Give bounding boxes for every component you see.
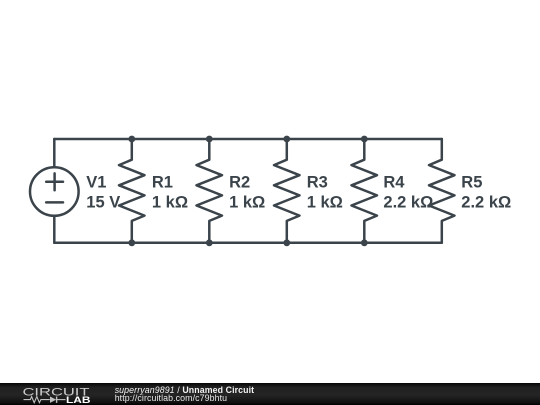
node junction bottom R1 (128, 239, 135, 246)
svg-text:1 kΩ: 1 kΩ (229, 194, 265, 212)
logo mini diode (50, 397, 56, 403)
svg-text:R5: R5 (461, 173, 482, 191)
wire bottom rail (54, 242, 442, 245)
svg-text:15 V: 15 V (86, 194, 120, 212)
svg-text:R2: R2 (229, 173, 250, 191)
node junction top R3 (283, 136, 290, 143)
svg-text:R3: R3 (307, 173, 328, 191)
node junction top R4 (361, 136, 368, 143)
resistor R5 (429, 139, 455, 243)
footer url line (115, 394, 227, 403)
voltage source V1 (30, 167, 79, 216)
node junction bottom R2 (206, 239, 213, 246)
svg-text:1 kΩ: 1 kΩ (152, 194, 188, 212)
resistor R2 (197, 139, 223, 243)
svg-text:V1: V1 (86, 173, 106, 191)
resistor R1 (119, 139, 145, 243)
resistor R3 (274, 139, 300, 243)
node junction bottom R4 (361, 239, 368, 246)
node junction top R1 (128, 136, 135, 143)
wire top rail (54, 138, 442, 141)
wire V1 bottom lead (53, 216, 56, 243)
svg-text:1 kΩ: 1 kΩ (307, 194, 343, 212)
node junction bottom R3 (283, 239, 290, 246)
wire V1 top lead (53, 139, 56, 167)
resistor R4 (352, 139, 378, 243)
svg-text:2.2 kΩ: 2.2 kΩ (383, 194, 433, 212)
svg-text:R1: R1 (152, 173, 173, 191)
logo mini resistor wire (24, 397, 50, 403)
svg-text:LAB: LAB (66, 395, 91, 405)
svg-text:R4: R4 (383, 173, 405, 191)
node junction top R2 (206, 136, 213, 143)
svg-text:2.2 kΩ: 2.2 kΩ (461, 194, 511, 212)
footer author / title line (115, 386, 255, 395)
